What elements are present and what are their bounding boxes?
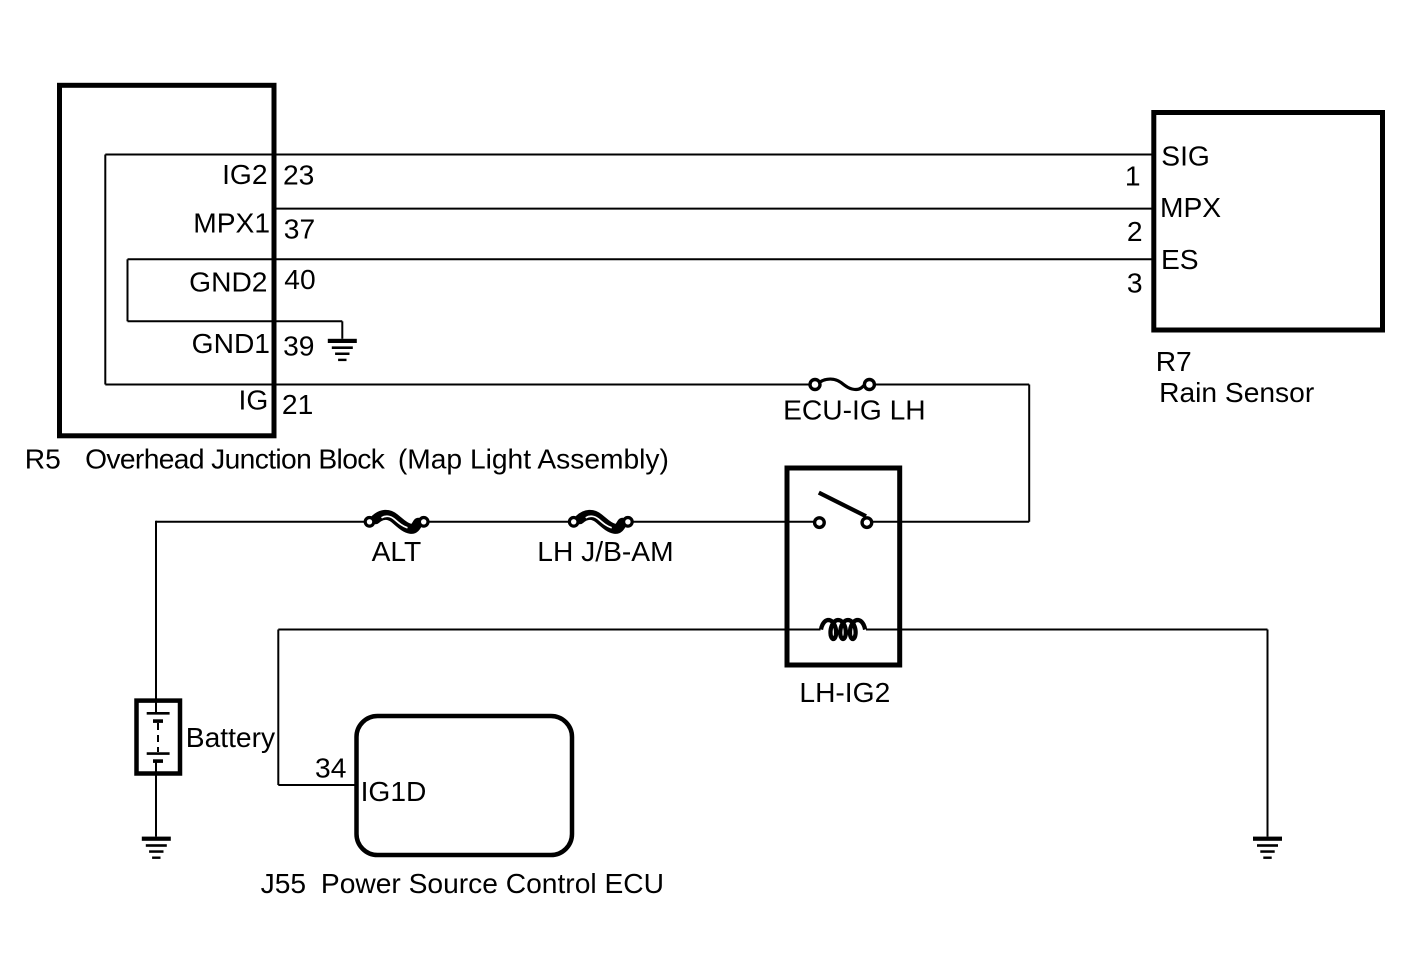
fusible link ALT xyxy=(365,515,428,529)
svg-text:MPX: MPX xyxy=(1160,191,1221,223)
svg-text:23: 23 xyxy=(283,158,314,190)
wire battery node down to battery + xyxy=(155,521,157,713)
svg-text:IG1D: IG1D xyxy=(361,775,427,807)
wire IG pin21 to fuse ECU-IG LH xyxy=(105,384,810,386)
svg-text:(Map Light Assembly): (Map Light Assembly) xyxy=(398,442,669,474)
svg-text:37: 37 xyxy=(284,213,315,245)
svg-text:40: 40 xyxy=(284,263,315,295)
svg-text:GND1: GND1 xyxy=(192,327,270,359)
ECU J55 outline xyxy=(357,716,573,855)
fuse ECU-IG LH xyxy=(810,379,874,389)
svg-text:ECU-IG LH: ECU-IG LH xyxy=(783,394,926,426)
relay coil xyxy=(821,620,865,639)
rain sensor R7 outline xyxy=(1154,113,1383,331)
wire relay coil to right corner xyxy=(866,629,1268,631)
svg-text:Battery: Battery xyxy=(186,721,276,753)
svg-text:GND2: GND2 xyxy=(189,266,267,298)
wire stub to ground G1 xyxy=(341,321,343,339)
ground G1 (GND1) xyxy=(328,339,357,361)
wire fuse ALT to fuse LH J/B-AM xyxy=(429,521,569,523)
svg-text:LH-IG2: LH-IG2 xyxy=(799,676,890,708)
wire inner connector left edge xyxy=(104,155,106,385)
wire corner down to switch level xyxy=(1028,385,1030,522)
svg-text:ALT: ALT xyxy=(372,535,422,567)
wire right corner down to ground G3 xyxy=(1267,630,1269,837)
relay switch blade xyxy=(819,493,866,517)
wire battery - down to ground G2 xyxy=(155,762,157,837)
battery cell plate short top xyxy=(153,719,163,723)
svg-text:Overhead Junction Block: Overhead Junction Block xyxy=(85,442,386,474)
wire branch down toward IG1D xyxy=(277,630,279,786)
relay switch contact right xyxy=(862,518,872,528)
wire battery node to fuse ALT xyxy=(156,521,365,523)
wire GND2 loop left edge xyxy=(127,259,129,321)
fusible link LH J/B-AM xyxy=(569,515,632,529)
relay LH-IG2 outline xyxy=(787,468,900,665)
wire MPX1 pin37 to MPX pin2 xyxy=(274,208,1153,210)
battery outline xyxy=(137,701,181,774)
svg-text:R5: R5 xyxy=(25,442,61,474)
svg-text:ES: ES xyxy=(1161,243,1199,275)
battery cell plate long top xyxy=(147,712,170,715)
wire IG2 pin23 to SIG pin1 xyxy=(105,154,1153,156)
battery cell plate short bottom xyxy=(153,759,163,763)
svg-text:SIG: SIG xyxy=(1161,139,1210,171)
svg-text:IG2: IG2 xyxy=(222,158,267,190)
svg-text:21: 21 xyxy=(282,388,313,420)
svg-text:MPX1: MPX1 xyxy=(193,206,270,238)
wire J55 branch to relay coil xyxy=(278,629,820,631)
svg-text:3: 3 xyxy=(1127,266,1143,298)
ground G2 (battery) xyxy=(142,837,171,859)
svg-text:Rain Sensor: Rain Sensor xyxy=(1159,376,1314,408)
svg-text:1: 1 xyxy=(1125,159,1141,191)
wire GND2 pin40 to ES pin3 (top of GND2 loop) xyxy=(128,258,1154,260)
wire to IG1D pin 34 xyxy=(278,784,356,786)
svg-text:LH J/B-AM: LH J/B-AM xyxy=(537,535,673,567)
wire switch right contact to corner xyxy=(872,521,1029,523)
svg-text:39: 39 xyxy=(283,330,314,362)
battery cell plate long bottom xyxy=(147,752,170,755)
svg-text:IG: IG xyxy=(239,384,269,416)
svg-text:J55: J55 xyxy=(261,867,306,899)
ground G3 (relay circuit) xyxy=(1253,837,1282,859)
svg-text:R7: R7 xyxy=(1156,345,1192,377)
wire fuse ECU-IG LH to corner xyxy=(875,384,1030,386)
relay switch contact left xyxy=(815,518,825,528)
junction block R5 outline xyxy=(60,85,275,436)
battery dashed middle xyxy=(157,723,159,752)
wire GND2 loop bottom xyxy=(128,320,343,322)
svg-text:34: 34 xyxy=(315,751,346,783)
wire fuse LH J/B-AM to switch left contact xyxy=(633,521,815,523)
svg-text:2: 2 xyxy=(1127,215,1143,247)
svg-text:Power Source Control ECU: Power Source Control ECU xyxy=(321,867,664,899)
